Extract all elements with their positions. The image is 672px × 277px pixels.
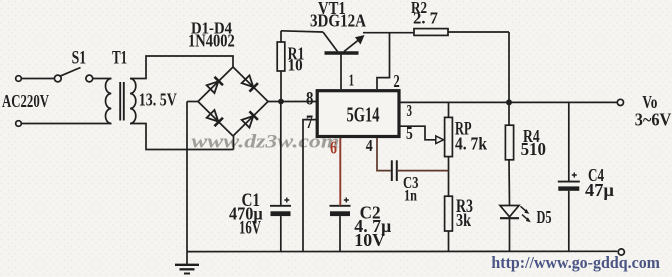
wire bridge left vertex stub xyxy=(187,101,198,103)
svg-text:3DG12A: 3DG12A xyxy=(310,10,366,30)
capacitor C1 xyxy=(270,205,291,207)
wire R1 top to VT1 collector xyxy=(281,31,323,32)
svg-text:S1: S1 xyxy=(72,48,87,69)
output terminal Vo xyxy=(617,99,623,105)
transistor VT1 emitter lead xyxy=(344,39,360,52)
wire left vertical to ground rail xyxy=(186,102,188,252)
diode D3 bottom-left (points SE) xyxy=(206,110,223,127)
svg-text:7: 7 xyxy=(306,112,313,133)
resistor R1 xyxy=(277,42,285,71)
wire secondary top lead xyxy=(130,56,233,79)
diode D2 top-right (points SE) xyxy=(241,75,258,92)
bridge edge top-left xyxy=(198,67,233,102)
svg-text:1: 1 xyxy=(349,71,355,90)
wire bridge bottom vertex to bottom lead xyxy=(233,136,235,150)
switch S1 lever xyxy=(60,68,81,77)
LED D5 arrows xyxy=(521,206,528,212)
svg-text:4: 4 xyxy=(366,136,373,155)
svg-text:1n: 1n xyxy=(404,188,417,205)
diode D1 top-left (points NE) xyxy=(206,77,223,94)
wire IC pin 3 to output xyxy=(399,101,617,103)
wire AC bottom to transformer primary bottom xyxy=(22,123,112,125)
capacitor C4 lead xyxy=(568,102,570,181)
svg-text:8: 8 xyxy=(306,88,313,109)
svg-text:T1: T1 xyxy=(112,48,127,69)
svg-text:5G14: 5G14 xyxy=(347,103,380,127)
bridge edge bottom-right xyxy=(233,102,268,137)
diode D4 bottom-right (points NE) xyxy=(241,111,258,128)
AC terminal top xyxy=(16,76,22,82)
svg-text:2. 7: 2. 7 xyxy=(413,9,438,28)
switch S1 contact right xyxy=(86,75,93,82)
wire IC pin 5 to RP wiper xyxy=(399,126,437,140)
capacitor C2 xyxy=(330,205,351,207)
svg-text:6: 6 xyxy=(330,138,337,158)
svg-text:5: 5 xyxy=(406,123,413,143)
capacitor C1 lead xyxy=(280,102,282,206)
svg-text:3k: 3k xyxy=(456,210,471,230)
wire pin3 rail to RP top xyxy=(448,102,450,117)
node junction R1/C1 on rail xyxy=(278,99,284,105)
bridge edge top-right xyxy=(233,67,268,102)
wire emitter to R2 xyxy=(363,32,414,34)
svg-text:13. 5V: 13. 5V xyxy=(139,90,177,110)
capacitor C4 xyxy=(558,181,580,183)
wire IC pin 7 to ground xyxy=(303,120,317,252)
switch S1 contact left xyxy=(54,75,61,82)
op-amp/regulator IC U1 5G14 box xyxy=(317,91,399,137)
svg-text:4. 7k: 4. 7k xyxy=(455,134,487,154)
RP wiper arrow xyxy=(436,136,444,144)
svg-text:AC220V: AC220V xyxy=(2,91,49,111)
transistor VT1 emitter arrow xyxy=(355,35,365,45)
svg-text:D5: D5 xyxy=(537,207,552,227)
svg-text:10V: 10V xyxy=(354,230,385,250)
svg-text:http://www.go-gddq.com: http://www.go-gddq.com xyxy=(491,253,660,272)
C2 plus sign xyxy=(344,198,349,203)
AC terminal bottom xyxy=(16,121,22,127)
resistor R2 xyxy=(414,29,448,36)
svg-text:3: 3 xyxy=(407,101,413,120)
wire switch to transformer primary top xyxy=(92,78,111,80)
resistor R3 xyxy=(445,196,453,231)
transformer T1 secondary coil xyxy=(130,79,136,124)
svg-text:10: 10 xyxy=(288,56,303,75)
bottom ground rail xyxy=(187,250,617,252)
wire AC top to switch xyxy=(22,78,54,80)
wire bridge right vertex to IC pin 8 xyxy=(268,101,317,103)
transformer T1 core xyxy=(119,82,121,121)
C1 plus sign xyxy=(284,198,289,203)
transistor VT1 base wire to pin 1 xyxy=(340,55,342,90)
ground symbol xyxy=(186,252,188,265)
svg-text:16V: 16V xyxy=(239,219,261,239)
wire to IC pin 2 xyxy=(377,33,390,89)
node junction R2/R4 xyxy=(506,99,512,105)
svg-text:1N4002: 1N4002 xyxy=(188,31,235,51)
transformer T1 primary coil xyxy=(106,79,112,124)
LED D5 xyxy=(500,206,519,217)
resistor R4 xyxy=(508,105,510,125)
capacitor C3 xyxy=(391,160,393,181)
potentiometer RP body xyxy=(445,117,453,156)
wire R2 right down to output rail xyxy=(508,32,510,100)
transistor VT1 collector lead xyxy=(323,32,338,52)
wire secondary bottom lead xyxy=(130,124,234,150)
svg-text:47µ: 47µ xyxy=(585,180,615,200)
transistor VT1 base bar xyxy=(325,51,359,54)
svg-text:2: 2 xyxy=(394,71,400,91)
C4 plus sign xyxy=(572,173,577,178)
wire IC pin 4 to C3 xyxy=(377,138,391,171)
wire RP bottom to R3 xyxy=(448,157,450,197)
svg-text:510: 510 xyxy=(521,139,546,159)
bottom output terminal xyxy=(618,249,624,255)
svg-text:3~6V: 3~6V xyxy=(635,109,672,129)
bridge edge bottom-left xyxy=(198,102,233,137)
wire IC pin 6 to C2 (red) xyxy=(339,138,341,206)
